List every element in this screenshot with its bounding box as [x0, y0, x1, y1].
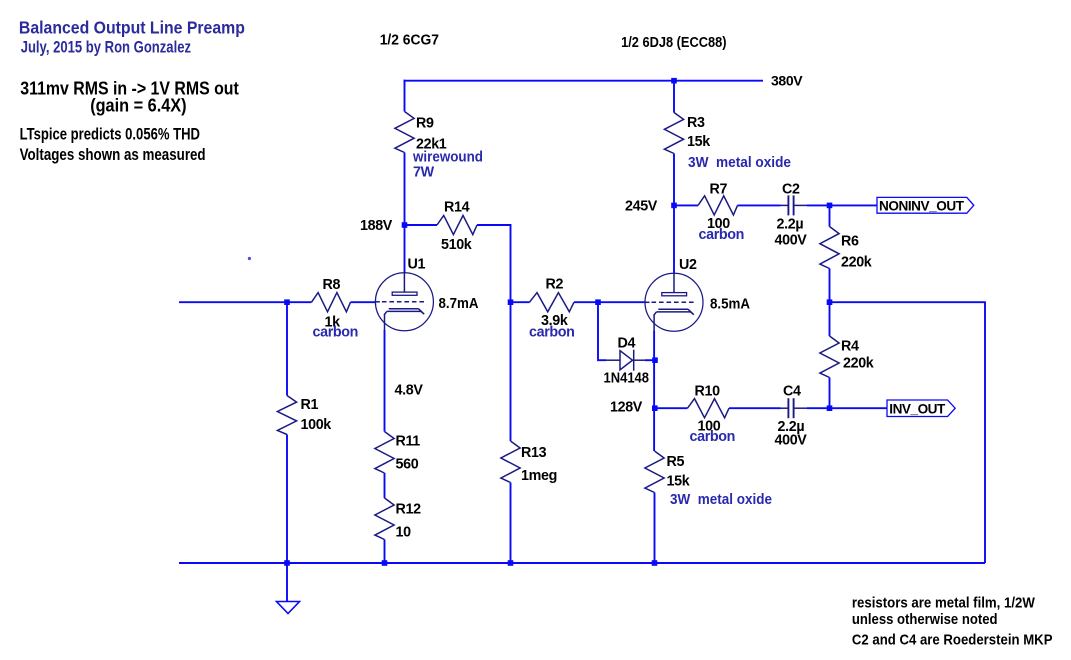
- svg-text:LTspice predicts 0.056% THD: LTspice predicts 0.056% THD: [20, 126, 201, 144]
- port flag INV_OUT: [887, 400, 955, 417]
- svg-text:unless otherwise noted: unless otherwise noted: [852, 612, 998, 628]
- wire D4 cathode to U2 cathode line: [645, 359, 655, 361]
- junction R6/R4/feedback: [827, 299, 833, 305]
- svg-text:2.2µ: 2.2µ: [777, 217, 804, 233]
- svg-text:wirewound: wirewound: [412, 150, 483, 166]
- wire input to R8: [179, 301, 312, 303]
- svg-text:Balanced Output Line Preamp: Balanced Output Line Preamp: [19, 17, 245, 37]
- svg-text:15k: 15k: [667, 474, 690, 490]
- svg-text:3W metal oxide: 3W metal oxide: [688, 155, 791, 171]
- resistor R11: [375, 432, 394, 474]
- svg-text:1/2 6DJ8 (ECC88): 1/2 6DJ8 (ECC88): [621, 35, 727, 51]
- wire to R6: [829, 205, 831, 226]
- svg-text:560: 560: [396, 457, 419, 473]
- wire R13 to ground bus: [510, 483, 512, 564]
- resistor R1: [277, 396, 296, 435]
- svg-text:R6: R6: [841, 234, 859, 250]
- junction bus/R5: [652, 560, 658, 566]
- svg-text:R10: R10: [695, 384, 721, 400]
- svg-text:(gain = 6.4X): (gain = 6.4X): [90, 94, 186, 115]
- junction bus/R1: [284, 560, 290, 566]
- svg-text:R4: R4: [841, 339, 859, 355]
- svg-text:resistors are metal film, 1/2W: resistors are metal film, 1/2W: [852, 596, 1035, 612]
- wire U2 cathode to R5: [653, 331, 655, 452]
- wire ground bus: [179, 562, 985, 564]
- svg-text:Voltages shown as measured: Voltages shown as measured: [20, 146, 206, 164]
- svg-text:1/2 6CG7: 1/2 6CG7: [380, 33, 439, 49]
- svg-text:July, 2015 by Ron Gonzalez: July, 2015 by Ron Gonzalez: [21, 39, 191, 57]
- svg-text:10: 10: [396, 525, 412, 541]
- svg-text:15k: 15k: [687, 134, 710, 150]
- svg-text:380V: 380V: [771, 73, 803, 89]
- junction C4/R4: [827, 405, 833, 411]
- wire to ground symbol: [286, 563, 288, 602]
- resistor R9: [395, 112, 414, 153]
- svg-text:3W metal oxide: 3W metal oxide: [670, 492, 772, 508]
- svg-text:220k: 220k: [843, 356, 874, 372]
- svg-text:R8: R8: [323, 277, 341, 293]
- ground: [277, 602, 300, 614]
- svg-text:R13: R13: [521, 445, 547, 461]
- wire R6 to R4: [829, 269, 831, 337]
- wire C4 to INV_OUT: [807, 407, 887, 409]
- triode U2 (1/2 6DJ8): [645, 273, 703, 331]
- resistor R8: [312, 293, 351, 312]
- svg-text:400V: 400V: [775, 233, 808, 249]
- junction bus/R13: [508, 560, 514, 566]
- junction D4/U2 cathode: [652, 357, 658, 363]
- junction 245V node: [671, 203, 677, 209]
- svg-text:R3: R3: [687, 115, 705, 131]
- svg-text:8.5mA: 8.5mA: [710, 297, 750, 313]
- wire R4 to C4 node: [829, 378, 831, 409]
- junction 188V node: [402, 222, 408, 228]
- junction R14/R2/R13: [508, 299, 514, 305]
- wire node to R2: [511, 301, 530, 303]
- wire R12 to ground bus: [384, 540, 386, 564]
- svg-text:128V: 128V: [610, 400, 643, 416]
- wire R8 to U1 grid: [351, 301, 376, 303]
- resistor R2: [530, 293, 575, 312]
- resistor R6: [820, 227, 839, 269]
- port flag NONINV_OUT: [877, 197, 974, 213]
- svg-text:C2 and C4 are Roederstein MKP: C2 and C4 are Roederstein MKP: [852, 632, 1053, 648]
- svg-text:R9: R9: [416, 116, 434, 132]
- svg-text:4.8V: 4.8V: [395, 383, 424, 399]
- wire R2 to U2 grid: [574, 301, 645, 303]
- resistor R7: [698, 196, 738, 215]
- svg-text:1meg: 1meg: [521, 468, 557, 484]
- svg-text:R1: R1: [301, 397, 319, 413]
- wire rail to R9: [404, 80, 406, 112]
- svg-text:1N4148: 1N4148: [604, 371, 650, 387]
- resistor R10: [688, 399, 730, 418]
- wire rail to R3: [673, 81, 675, 113]
- wire R3 to U2 plate: [673, 154, 675, 274]
- junction rail/R3: [671, 78, 677, 84]
- svg-text:400V: 400V: [775, 433, 808, 449]
- svg-text:carbon: carbon: [313, 325, 359, 341]
- wire 380V rail: [404, 80, 764, 82]
- svg-text:R12: R12: [396, 502, 422, 518]
- svg-text:245V: 245V: [625, 199, 658, 215]
- svg-text:NONINV_OUT: NONINV_OUT: [879, 198, 965, 213]
- wire R1 to ground bus: [286, 435, 288, 564]
- wire 188V to R14: [405, 224, 438, 226]
- wire U1 cathode to R11: [384, 330, 386, 432]
- svg-text:INV_OUT: INV_OUT: [889, 401, 946, 416]
- svg-text:D4: D4: [618, 336, 636, 352]
- svg-text:carbon: carbon: [529, 325, 575, 341]
- capacitor C4: [781, 398, 808, 418]
- wire R7 to C2: [738, 204, 781, 206]
- svg-text:510k: 510k: [441, 237, 472, 253]
- svg-text:100k: 100k: [301, 417, 332, 433]
- svg-text:R7: R7: [710, 182, 728, 198]
- triode U1 (1/2 6CG7): [375, 273, 433, 331]
- diode D4 1N4148: [606, 350, 645, 371]
- svg-text:U2: U2: [679, 257, 697, 273]
- svg-text:C2: C2: [782, 182, 800, 198]
- wire R14 to grid node: [477, 225, 511, 302]
- resistor R13: [501, 441, 520, 483]
- junction 128V node: [652, 405, 658, 411]
- capacitor C2: [781, 195, 808, 215]
- wire R9 to U1 plate: [404, 153, 406, 274]
- svg-text:188V: 188V: [360, 218, 393, 234]
- junction input/R1: [284, 299, 290, 305]
- resistor R3: [664, 113, 683, 154]
- svg-text:U1: U1: [408, 257, 426, 273]
- svg-text:carbon: carbon: [690, 429, 736, 445]
- resistor R5: [645, 451, 664, 493]
- resistor R4: [820, 336, 839, 378]
- resistor R12: [375, 498, 394, 540]
- wire feedback to ground bus: [830, 302, 986, 563]
- wire R11 to R12: [384, 473, 386, 498]
- wire R10 to C4: [729, 407, 781, 409]
- svg-text:R2: R2: [546, 277, 564, 293]
- stray dot artifact: [248, 257, 251, 260]
- svg-text:220k: 220k: [841, 255, 872, 271]
- wire R5 to ground bus: [654, 493, 656, 564]
- svg-text:R11: R11: [396, 434, 421, 450]
- junction C2/R6: [827, 203, 833, 209]
- wire grid node to D4 anode: [598, 302, 606, 360]
- svg-text:carbon: carbon: [699, 227, 745, 243]
- wire 245V to R7: [674, 204, 698, 206]
- wire node to R13: [510, 302, 512, 441]
- junction R2/D4: [595, 299, 601, 305]
- junction bus/R12: [382, 560, 388, 566]
- svg-text:R5: R5: [667, 454, 685, 470]
- wire to R1: [286, 302, 288, 395]
- wire C2 to NONINV_OUT: [807, 204, 877, 206]
- resistor R14: [437, 215, 477, 234]
- wire 128V to R10: [655, 407, 688, 409]
- svg-text:8.7mA: 8.7mA: [439, 296, 479, 312]
- svg-text:C4: C4: [783, 384, 801, 400]
- svg-text:7W: 7W: [413, 165, 435, 181]
- svg-text:R14: R14: [444, 200, 470, 216]
